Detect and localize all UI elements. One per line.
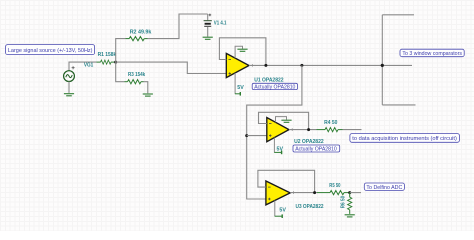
comparator fan-out bracket (382, 15, 415, 105)
U1 power stub top to ground (235, 46, 242, 58)
U2 5V pin (274, 138, 281, 155)
svg-text:R2 49.9k: R2 49.9k (130, 30, 153, 36)
wire R2 to battery rail (148, 14, 208, 39)
annotation box: To Delfino ADC (364, 183, 404, 190)
junction drop line (300, 64, 303, 67)
junction bracket (381, 64, 384, 67)
svg-text:To 3 window comparators: To 3 window comparators (402, 51, 462, 57)
resistor R4 (317, 128, 343, 132)
wire R4 out (343, 129, 362, 131)
U1 feedback wire (219, 38, 266, 66)
svg-text:VG1: VG1 (84, 62, 93, 68)
resistor R1 (97, 60, 116, 64)
resistor R6 (vertical) (348, 193, 352, 214)
U3 output wire (290, 192, 317, 194)
junction U2 input (245, 134, 248, 137)
svg-text:U3 OPA2822: U3 OPA2822 (296, 204, 324, 210)
wire R3 branch (116, 62, 125, 82)
U1 output pin tick (251, 64, 253, 67)
junction U3 feedback (313, 191, 316, 194)
resistor R5 (317, 191, 350, 195)
voltage generator VG1 (64, 71, 75, 93)
junction U2 feedback (307, 128, 310, 131)
op-amp U1 (226, 53, 249, 77)
svg-text:Actually OPA2810: Actually OPA2810 (254, 84, 295, 90)
op-amp U2 (267, 118, 289, 142)
svg-text:Large signal source (+/-13V, 5: Large signal source (+/-13V, 50Hz) (8, 48, 93, 54)
svg-text:5V: 5V (279, 207, 286, 213)
wire node A up to R2 (116, 39, 126, 63)
signal drop wire to U2/U3 (247, 65, 302, 199)
battery plus mark (209, 14, 212, 17)
U3 feedback wire (258, 170, 315, 192)
wire R5 out (350, 192, 361, 194)
ground (VG1) (64, 94, 74, 96)
wire VG1 top riser to R1 (69, 62, 97, 71)
svg-text:R4 50: R4 50 (324, 120, 337, 126)
annotation box: To 3 window comparators (400, 49, 464, 57)
annotation box: to data acquisition (350, 134, 460, 143)
svg-text:R3 154k: R3 154k (128, 72, 146, 78)
ground (U1 supply) (237, 49, 247, 51)
U2 output pin tick (291, 128, 293, 131)
svg-text:V1 4.1: V1 4.1 (214, 21, 227, 27)
junction R5/R6 (348, 191, 351, 194)
svg-text:R5 50: R5 50 (329, 183, 340, 189)
op-amp U3 (266, 181, 290, 205)
ground (R6) (345, 215, 355, 217)
ground (U2 supply) (281, 120, 291, 122)
U2 feedback wire (259, 112, 309, 129)
svg-text:R1 158k: R1 158k (98, 52, 117, 58)
U1 5V pin (235, 73, 240, 96)
svg-text:Actually OPA2810: Actually OPA2810 (295, 147, 337, 153)
svg-text:5V: 5V (237, 85, 244, 91)
annotation box: Large signal source (6, 45, 95, 55)
wire node A to U1 + input (116, 62, 227, 73)
wire R3 to ground (144, 82, 148, 94)
svg-text:to data acquisition instrument: to data acquisition instruments (off cir… (352, 136, 457, 142)
svg-text:5V: 5V (277, 146, 284, 152)
U3 output pin tick (292, 191, 294, 194)
U2 power stub top to ground (276, 117, 287, 123)
U3 5V pin (275, 201, 283, 219)
resistor R2 (126, 37, 148, 41)
svg-text:U1 OPA2822: U1 OPA2822 (254, 77, 283, 83)
resistor R3 (125, 80, 144, 84)
node A junction (114, 61, 117, 64)
annotation box: Actually OPA2810 (U2) (293, 145, 340, 152)
annotation box: Actually OPA2810 (U1) (252, 83, 297, 89)
U2 output wire (289, 129, 317, 131)
svg-text:To Delfino ADC: To Delfino ADC (366, 185, 402, 191)
svg-text:R6 50: R6 50 (341, 196, 347, 209)
ground (V1) (203, 37, 213, 39)
svg-text:U2 OPA2822: U2 OPA2822 (294, 139, 324, 145)
wire to U2 + input (247, 135, 267, 137)
VG1 plus mark (72, 66, 75, 69)
U1 output wire to comparator bracket (249, 64, 382, 66)
ground (R3) (143, 94, 153, 96)
junction U1 feedback (264, 64, 267, 67)
battery V1 (204, 14, 212, 37)
